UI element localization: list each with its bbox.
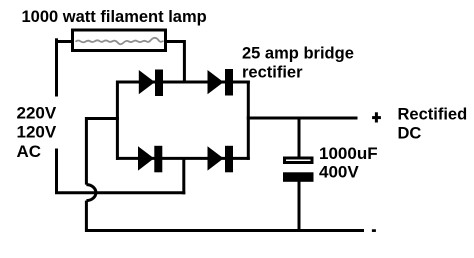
diode D4 (bottom right) bbox=[208, 146, 234, 173]
lamp LP1 (1000 watt filament lamp) body bbox=[73, 30, 166, 51]
terminal: minus sign bbox=[372, 229, 376, 232]
svg-text:120V: 120V bbox=[17, 123, 57, 142]
svg-text:220V: 220V bbox=[17, 103, 57, 122]
wire: bottom bridge midpoint drop bbox=[182, 157, 185, 194]
wire: bridge bottom row bbox=[116, 157, 250, 160]
diode D2 (top right) bbox=[208, 69, 234, 96]
svg-text:1000uF: 1000uF bbox=[319, 144, 378, 163]
wire: DC minus vertical lower bbox=[85, 201, 88, 232]
wire: bridge left vertical (DC minus node) bbox=[116, 81, 119, 160]
wire: lamp left lead bbox=[55, 40, 73, 43]
svg-text:25 amp bridge: 25 amp bridge bbox=[242, 45, 354, 63]
label: 220V 120V AC bbox=[17, 103, 57, 161]
svg-text:1000 watt filament lamp: 1000 watt filament lamp bbox=[22, 8, 207, 26]
wire: bottom DC minus rail bbox=[85, 229, 364, 232]
capacitor C1 negative plate bbox=[283, 172, 314, 182]
svg-text:DC: DC bbox=[398, 125, 422, 143]
wire: bridge right vertical (DC plus node) bbox=[247, 81, 250, 160]
lamp LP1 filament squiggle bbox=[76, 38, 164, 44]
svg-text:400V: 400V bbox=[319, 163, 359, 182]
diode D1 (top left) bbox=[139, 70, 163, 97]
wire: AC terminal 2 to bottom bridge midpoint bbox=[55, 191, 185, 194]
diode D3 (bottom left) bbox=[138, 146, 162, 173]
wire hop: DC minus crosses AC wire bbox=[86, 185, 96, 201]
wire: DC minus tap from bridge left vertical bbox=[86, 117, 119, 120]
label: Rectified DC bbox=[398, 106, 468, 143]
wire: bridge top row bbox=[116, 81, 250, 84]
wire: DC minus vertical upper bbox=[85, 117, 88, 185]
terminal: plus sign bbox=[372, 112, 381, 122]
label: 1000uF 400V bbox=[319, 144, 378, 182]
wire: capacitor bottom lead bbox=[298, 181, 301, 232]
wire: capacitor top lead bbox=[298, 117, 301, 158]
node: AC source terminal 2 (lower stub) bbox=[55, 149, 58, 193]
capacitor C1 positive plate bbox=[285, 158, 313, 163]
wire: lamp right lead down to top bridge midpoint bbox=[166, 42, 185, 84]
wire: DC plus output bbox=[247, 117, 358, 120]
svg-text:Rectified: Rectified bbox=[398, 106, 468, 124]
node: AC source terminal 1 (upper stub) bbox=[55, 38, 58, 96]
svg-text:rectifier: rectifier bbox=[242, 64, 303, 82]
svg-text:AC: AC bbox=[17, 142, 42, 161]
label: 25 amp bridge rectifier bbox=[242, 45, 354, 82]
